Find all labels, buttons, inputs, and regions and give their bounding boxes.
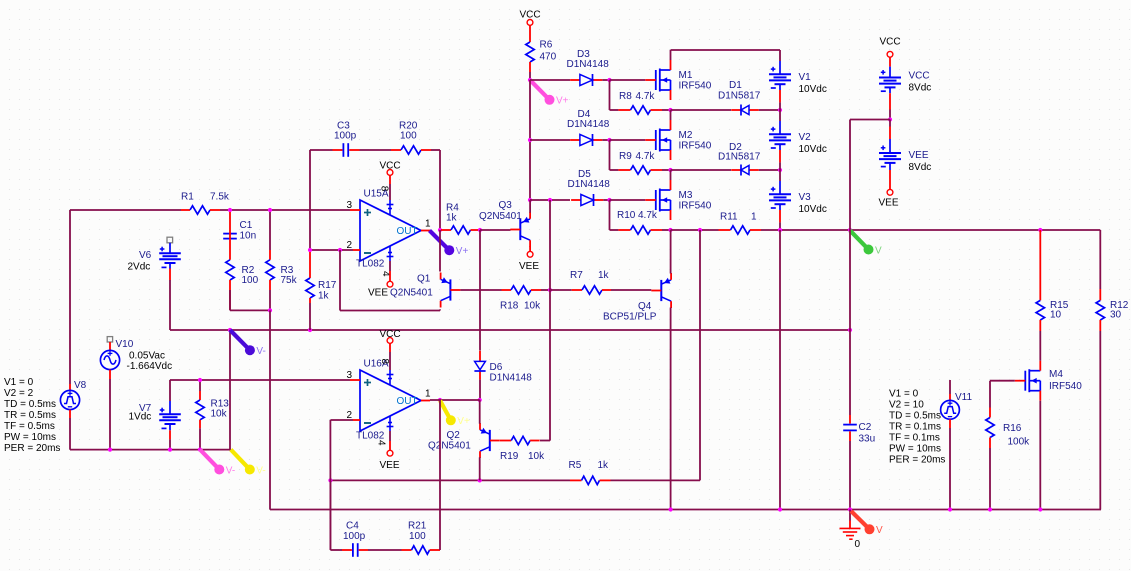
resistor R4 <box>441 226 480 234</box>
svg-text:10Vdc: 10Vdc <box>799 204 827 215</box>
label OUT op-amp1 <box>397 226 418 237</box>
svg-text:M3: M3 <box>679 190 693 201</box>
label M2 <box>679 130 712 152</box>
transistor M1 IRF540 <box>645 60 670 100</box>
diode D2 <box>731 165 759 176</box>
svg-text:Q2N5401: Q2N5401 <box>428 440 471 451</box>
svg-text:TD = 0.5ms: TD = 0.5ms <box>4 399 56 410</box>
svg-text:Q2N5401: Q2N5401 <box>479 211 522 222</box>
label R15 <box>1050 300 1069 321</box>
junction VCC VEE mid <box>888 117 892 121</box>
wire pin2 op2 <box>330 419 353 421</box>
junction Q4 rail <box>669 507 673 511</box>
wire R2 bottom <box>230 290 270 310</box>
resistor R1 <box>181 206 220 214</box>
pin number 1 op-amp1 <box>425 219 431 230</box>
label R17 <box>318 280 337 301</box>
wire Q4 emitter up <box>670 230 672 274</box>
resistor R19 <box>500 436 540 444</box>
label R2 <box>242 265 259 286</box>
junction x850 row230 <box>848 228 852 232</box>
capacitor C3 <box>333 143 360 157</box>
wire pin2 op2 vertical <box>329 420 331 550</box>
pin number 8 op-amp U15A <box>379 186 390 192</box>
svg-text:D1N4148: D1N4148 <box>567 59 610 70</box>
svg-text:8: 8 <box>379 186 390 192</box>
svg-text:R19: R19 <box>500 451 519 462</box>
svg-text:1: 1 <box>751 212 757 223</box>
label V10 value <box>127 351 173 373</box>
svg-text:PW = 10ms: PW = 10ms <box>4 432 56 443</box>
power VEE op-amp1 <box>387 281 393 287</box>
svg-text:1k: 1k <box>598 270 610 281</box>
label R20 <box>399 121 418 142</box>
source V10 <box>100 337 119 379</box>
svg-text:PW = 10ms: PW = 10ms <box>889 444 941 455</box>
wire x550 vertical <box>549 200 551 441</box>
wire R1 left <box>70 209 181 211</box>
junction D4 row <box>528 138 532 142</box>
junction C1 top <box>228 208 232 212</box>
svg-text:TF = 0.1ms: TF = 0.1ms <box>889 433 940 444</box>
svg-text:R1: R1 <box>181 192 194 203</box>
label M3 <box>679 190 712 212</box>
label R10 <box>617 210 658 221</box>
pin number 3 op-amp2 <box>347 370 353 381</box>
wire V8 bottom <box>69 418 71 450</box>
svg-text:10: 10 <box>1050 310 1062 321</box>
pin number 4 op-amp2 <box>376 440 387 446</box>
svg-text:VEE: VEE <box>909 150 929 161</box>
label V8 <box>74 380 87 391</box>
svg-text:0.05Vac: 0.05Vac <box>129 351 165 362</box>
wire C4 left vertical <box>329 480 331 550</box>
svg-text:TF = 0.5ms: TF = 0.5ms <box>4 421 55 432</box>
svg-text:V+: V+ <box>456 246 469 257</box>
label R21 <box>408 521 427 542</box>
junction V1 V2 <box>778 108 782 112</box>
probe V+ pink <box>530 80 569 107</box>
label C1 <box>240 220 257 241</box>
resistor R2 <box>226 240 234 310</box>
junction mid rail x230 <box>228 328 232 332</box>
svg-text:V1: V1 <box>799 72 812 83</box>
wire pin2 op1 <box>310 249 353 251</box>
svg-text:V: V <box>875 245 882 256</box>
label V7 <box>129 403 152 423</box>
junction R17 bottom <box>308 328 312 332</box>
wire row230 a <box>671 229 719 231</box>
wire R18 right <box>541 289 550 291</box>
svg-text:10Vdc: 10Vdc <box>799 84 827 95</box>
svg-text:VCC: VCC <box>379 161 400 172</box>
svg-text:4: 4 <box>376 440 387 446</box>
svg-text:10k: 10k <box>528 451 545 462</box>
resistor R11 <box>719 226 762 234</box>
wire C4 left <box>330 549 342 551</box>
svg-text:VEE: VEE <box>368 288 388 299</box>
svg-text:V3: V3 <box>799 192 812 203</box>
resistor R15 <box>1036 230 1044 331</box>
junction D3 gate <box>607 78 611 82</box>
junction R16 rail <box>988 507 992 511</box>
wire D2 left <box>671 169 732 171</box>
label M1 <box>679 70 712 92</box>
wire M4 gate wire <box>990 380 1015 382</box>
label D6 <box>490 362 533 383</box>
svg-text:4.7k: 4.7k <box>638 210 658 221</box>
wire D5 right <box>603 199 609 201</box>
wire Q2 emitter up <box>479 400 481 424</box>
wire R6 bottom <box>529 72 531 80</box>
wire R3 bottom <box>269 290 271 310</box>
capacitor C4 <box>342 543 368 557</box>
wire y480 right <box>611 479 701 481</box>
junction pin2 Q1 <box>338 248 342 252</box>
junction M4 rail <box>1038 507 1042 511</box>
resistor R21 <box>402 546 441 554</box>
probe V- pink <box>200 450 235 477</box>
label R11 <box>720 212 757 223</box>
svg-text:4.7k: 4.7k <box>636 151 656 162</box>
svg-text:TL082: TL082 <box>356 259 385 270</box>
svg-text:1k: 1k <box>598 460 610 471</box>
svg-text:3: 3 <box>347 200 353 211</box>
svg-text:10n: 10n <box>240 230 257 241</box>
power VCC op-amp1 <box>379 161 400 176</box>
svg-text:TR = 0.1ms: TR = 0.1ms <box>889 422 941 433</box>
wire R8 left <box>610 109 619 111</box>
wire VEE op-amp1 <box>389 261 391 281</box>
wire R12 top <box>1099 230 1101 289</box>
pin number 3 op-amp1 <box>347 200 353 211</box>
junction V2 V3 <box>778 168 782 172</box>
label D1 <box>718 80 761 101</box>
svg-text:IRF540: IRF540 <box>679 141 712 152</box>
label TL082 op-amp2 <box>356 431 385 442</box>
wire D2 right <box>759 169 780 171</box>
svg-text:2Vdc: 2Vdc <box>128 261 151 272</box>
wire Q2 collector down <box>479 457 481 480</box>
transistor Q2 <box>480 423 500 458</box>
label Q2N5401 Q1 <box>390 288 433 299</box>
wire mid rail y330 <box>170 329 850 331</box>
svg-text:VCC: VCC <box>909 71 930 82</box>
wire R1 right to pin3 <box>220 209 350 211</box>
junction R18 R7 <box>548 288 552 292</box>
junction D6 Q2 <box>478 398 482 402</box>
probe V- violet <box>230 330 266 357</box>
wire bottom rail left <box>70 449 231 451</box>
svg-text:R5: R5 <box>569 460 582 471</box>
label V11 <box>955 392 972 403</box>
svg-text:100k: 100k <box>1008 436 1031 447</box>
svg-text:1: 1 <box>425 389 431 400</box>
junction R13 rail <box>198 448 202 452</box>
svg-text:V2: V2 <box>799 132 812 143</box>
svg-text:0: 0 <box>855 539 861 550</box>
resistor R5 <box>570 476 611 484</box>
label R16 <box>1003 423 1030 447</box>
label V2 <box>799 132 827 155</box>
label R12 <box>1110 300 1129 321</box>
wire D4 left <box>530 139 570 141</box>
junction R13 top <box>198 378 202 382</box>
probe V+ yellow <box>440 401 470 428</box>
svg-text:R9: R9 <box>619 151 632 162</box>
wire R10 right <box>662 229 671 231</box>
svg-text:Q1: Q1 <box>417 274 431 285</box>
junction D4 gate <box>607 138 611 142</box>
svg-text:100p: 100p <box>334 131 357 142</box>
svg-text:V2 = 10: V2 = 10 <box>889 400 924 411</box>
junction R3 top <box>268 208 272 212</box>
svg-text:-1.664Vdc: -1.664Vdc <box>127 361 173 372</box>
diode D1 <box>731 105 759 116</box>
svg-text:10k: 10k <box>524 300 541 311</box>
wire x270 vertical <box>269 310 271 509</box>
resistor R18 <box>502 286 542 294</box>
wire pin2 down x340 <box>339 250 341 311</box>
svg-text:4.7k: 4.7k <box>636 91 656 102</box>
svg-text:R7: R7 <box>570 270 583 281</box>
label U15A <box>364 189 389 200</box>
svg-text:PER = 20ms: PER = 20ms <box>4 443 60 454</box>
svg-text:V10: V10 <box>116 339 134 350</box>
junction V11 rail <box>948 507 952 511</box>
svg-text:100: 100 <box>242 275 259 286</box>
wire D1 left <box>671 109 732 111</box>
junction M2 source <box>668 168 672 172</box>
svg-text:3: 3 <box>347 370 353 381</box>
resistor R8 <box>618 106 662 114</box>
wire x530 vertical <box>529 80 531 200</box>
capacitor C1 <box>223 212 237 240</box>
svg-text:10Vdc: 10Vdc <box>799 144 827 155</box>
junction V3 bottom <box>778 228 782 232</box>
junction Q4 top <box>698 228 702 232</box>
svg-text:VCC: VCC <box>879 37 900 48</box>
junction x780 rail <box>778 507 782 511</box>
label R13 <box>211 399 230 420</box>
wire row230 b <box>761 229 1100 231</box>
wire M4 drain up <box>1039 331 1041 361</box>
wire C3-R20 <box>360 149 392 151</box>
source V7 <box>159 380 181 450</box>
svg-text:Q2N5401: Q2N5401 <box>390 288 433 299</box>
resistor R10 <box>618 226 662 234</box>
svg-text:IRF540: IRF540 <box>1049 381 1082 392</box>
label D3 <box>567 49 610 70</box>
battery VEE 8Vdc <box>879 120 901 190</box>
label R7 <box>570 270 610 281</box>
wire V10 bottom <box>109 379 111 450</box>
junction D5 row <box>528 198 532 202</box>
svg-text:V2 = 2: V2 = 2 <box>4 388 34 399</box>
wire Q4 collector down <box>670 308 672 510</box>
wire R9 left <box>610 169 619 171</box>
resistor R9 <box>618 166 662 174</box>
svg-text:R11: R11 <box>720 212 738 223</box>
junction R2 R3 <box>268 308 272 312</box>
label VEE op-amp2 <box>380 460 400 471</box>
battery VCC 8Vdc <box>879 57 901 119</box>
svg-text:100: 100 <box>400 131 417 142</box>
wire R21 right vertical <box>439 400 441 550</box>
battery V2 <box>769 110 791 170</box>
wire Q3 collector <box>529 246 531 251</box>
svg-text:V8: V8 <box>74 380 87 391</box>
resistor R17 <box>306 252 314 303</box>
power VCC top <box>519 10 540 26</box>
svg-text:V1 = 0: V1 = 0 <box>889 389 919 400</box>
label D5 <box>568 169 611 190</box>
probe V green <box>850 231 882 257</box>
svg-text:V-: V- <box>226 465 235 476</box>
svg-text:D1N5817: D1N5817 <box>718 152 761 163</box>
power VCC right <box>879 37 900 58</box>
wire R13 top <box>199 380 201 391</box>
label C4 <box>343 521 366 542</box>
junction R4 Q3 base <box>478 228 482 232</box>
label U16A <box>364 359 389 370</box>
wire C4-R21 <box>368 549 402 551</box>
wire R7 left <box>550 289 572 291</box>
label VCC battery <box>909 71 932 94</box>
svg-text:IRF540: IRF540 <box>679 81 712 92</box>
power VEE op-amp2 <box>387 450 393 456</box>
label Q3 <box>499 200 513 211</box>
svg-text:VEE: VEE <box>519 261 539 272</box>
label R1 <box>181 192 230 203</box>
junction R17 top <box>308 248 312 252</box>
svg-text:IRF540: IRF540 <box>679 201 712 212</box>
svg-text:D1N5817: D1N5817 <box>718 90 761 101</box>
wire D6 bottom <box>479 380 481 400</box>
svg-text:R18: R18 <box>500 300 519 311</box>
transistor Q1 <box>441 273 461 308</box>
capacitor C2 <box>843 415 857 441</box>
svg-text:VEE: VEE <box>380 460 400 471</box>
svg-text:8Vdc: 8Vdc <box>909 82 932 93</box>
svg-text:100: 100 <box>409 531 426 542</box>
wire R9 right <box>662 169 671 171</box>
label V11 parameters <box>889 389 945 466</box>
power VEE Q3 <box>527 251 533 257</box>
wire x700 vertical <box>699 230 701 480</box>
wire R3 top <box>269 212 271 250</box>
diode D5 <box>571 194 603 206</box>
wire D3 right <box>602 79 609 81</box>
svg-text:R10: R10 <box>617 210 636 221</box>
battery V3 <box>769 170 791 230</box>
wire D4 right <box>602 139 609 141</box>
svg-text:R8: R8 <box>619 91 632 102</box>
svg-text:V+: V+ <box>457 416 470 427</box>
svg-text:VEE: VEE <box>879 198 899 209</box>
svg-text:TR = 0.5ms: TR = 0.5ms <box>4 410 56 421</box>
pin number 2 op-amp2 <box>347 410 353 421</box>
source V11 <box>941 380 960 428</box>
svg-text:R16: R16 <box>1003 423 1022 434</box>
label V8 parameters <box>4 377 60 454</box>
diode D3 <box>570 74 602 86</box>
wire R12 bottom <box>1099 331 1101 510</box>
source V6 <box>159 237 181 280</box>
svg-text:D1N4148: D1N4148 <box>568 179 611 190</box>
label Q2 <box>447 430 461 441</box>
label C3 <box>334 121 357 142</box>
svg-text:V: V <box>876 525 883 536</box>
wire op2 out row <box>430 399 480 401</box>
junction M3 source <box>668 228 672 232</box>
svg-text:1k: 1k <box>318 290 330 301</box>
svg-text:C2: C2 <box>859 422 872 433</box>
svg-text:TD = 0.5ms: TD = 0.5ms <box>889 411 941 422</box>
label Q4 <box>638 301 652 312</box>
svg-text:33u: 33u <box>859 433 876 444</box>
label D2 <box>718 142 761 163</box>
label VEE right <box>879 198 899 209</box>
resistor R12 <box>1096 289 1104 331</box>
transistor M4 IRF540 <box>1015 361 1041 401</box>
resistor R20 <box>391 146 431 154</box>
wire M1 src - M2 drain <box>670 110 672 120</box>
svg-text:VCC: VCC <box>379 329 400 340</box>
label BCP51/PLP <box>603 311 657 322</box>
diode D6 <box>474 351 485 380</box>
svg-text:470: 470 <box>540 52 557 63</box>
probe V- yellow <box>231 450 266 477</box>
svg-text:V6: V6 <box>139 250 152 261</box>
junction V7 rail <box>168 448 172 452</box>
svg-text:OUT: OUT <box>397 226 418 237</box>
pin number 8 op-amp U16A <box>379 359 390 365</box>
junction mid rail x850 <box>848 328 852 332</box>
label VEE Q3 <box>519 261 539 272</box>
svg-text:V-: V- <box>256 346 265 357</box>
wire y480 left <box>330 479 570 481</box>
wire Q1 base to R18 <box>460 289 501 291</box>
svg-text:BCP51/PLP: BCP51/PLP <box>603 311 657 322</box>
label D4 <box>567 109 610 130</box>
wire mid to x850 <box>850 119 890 121</box>
svg-text:M2: M2 <box>679 130 693 141</box>
wire x610 v2 <box>609 140 611 170</box>
resistor R7 <box>572 286 611 294</box>
wire M1 gate <box>610 79 646 81</box>
power VEE right <box>887 189 893 195</box>
label Q2N5401 Q2 <box>428 440 471 451</box>
pin number 2 op-amp1 <box>347 240 353 251</box>
wire M3 gate <box>610 199 646 201</box>
svg-text:V-: V- <box>256 465 265 476</box>
wire D1 right <box>759 109 780 111</box>
wire VCC op-amp1 <box>389 175 391 200</box>
label R19 <box>500 451 545 462</box>
wire x780 vertical <box>779 230 781 510</box>
label R18 <box>500 300 541 311</box>
svg-text:D1N4148: D1N4148 <box>567 119 610 130</box>
wire bottom rail <box>270 509 1101 511</box>
op-amp U15A <box>350 200 430 261</box>
probe V+ violet op1 <box>430 231 469 258</box>
svg-text:R6: R6 <box>540 40 553 51</box>
label OUT op-amp2 <box>397 396 418 407</box>
wire M1 drain up <box>670 50 672 60</box>
wire VEE op-amp2 <box>389 431 391 450</box>
junction D5 gate <box>607 198 611 202</box>
